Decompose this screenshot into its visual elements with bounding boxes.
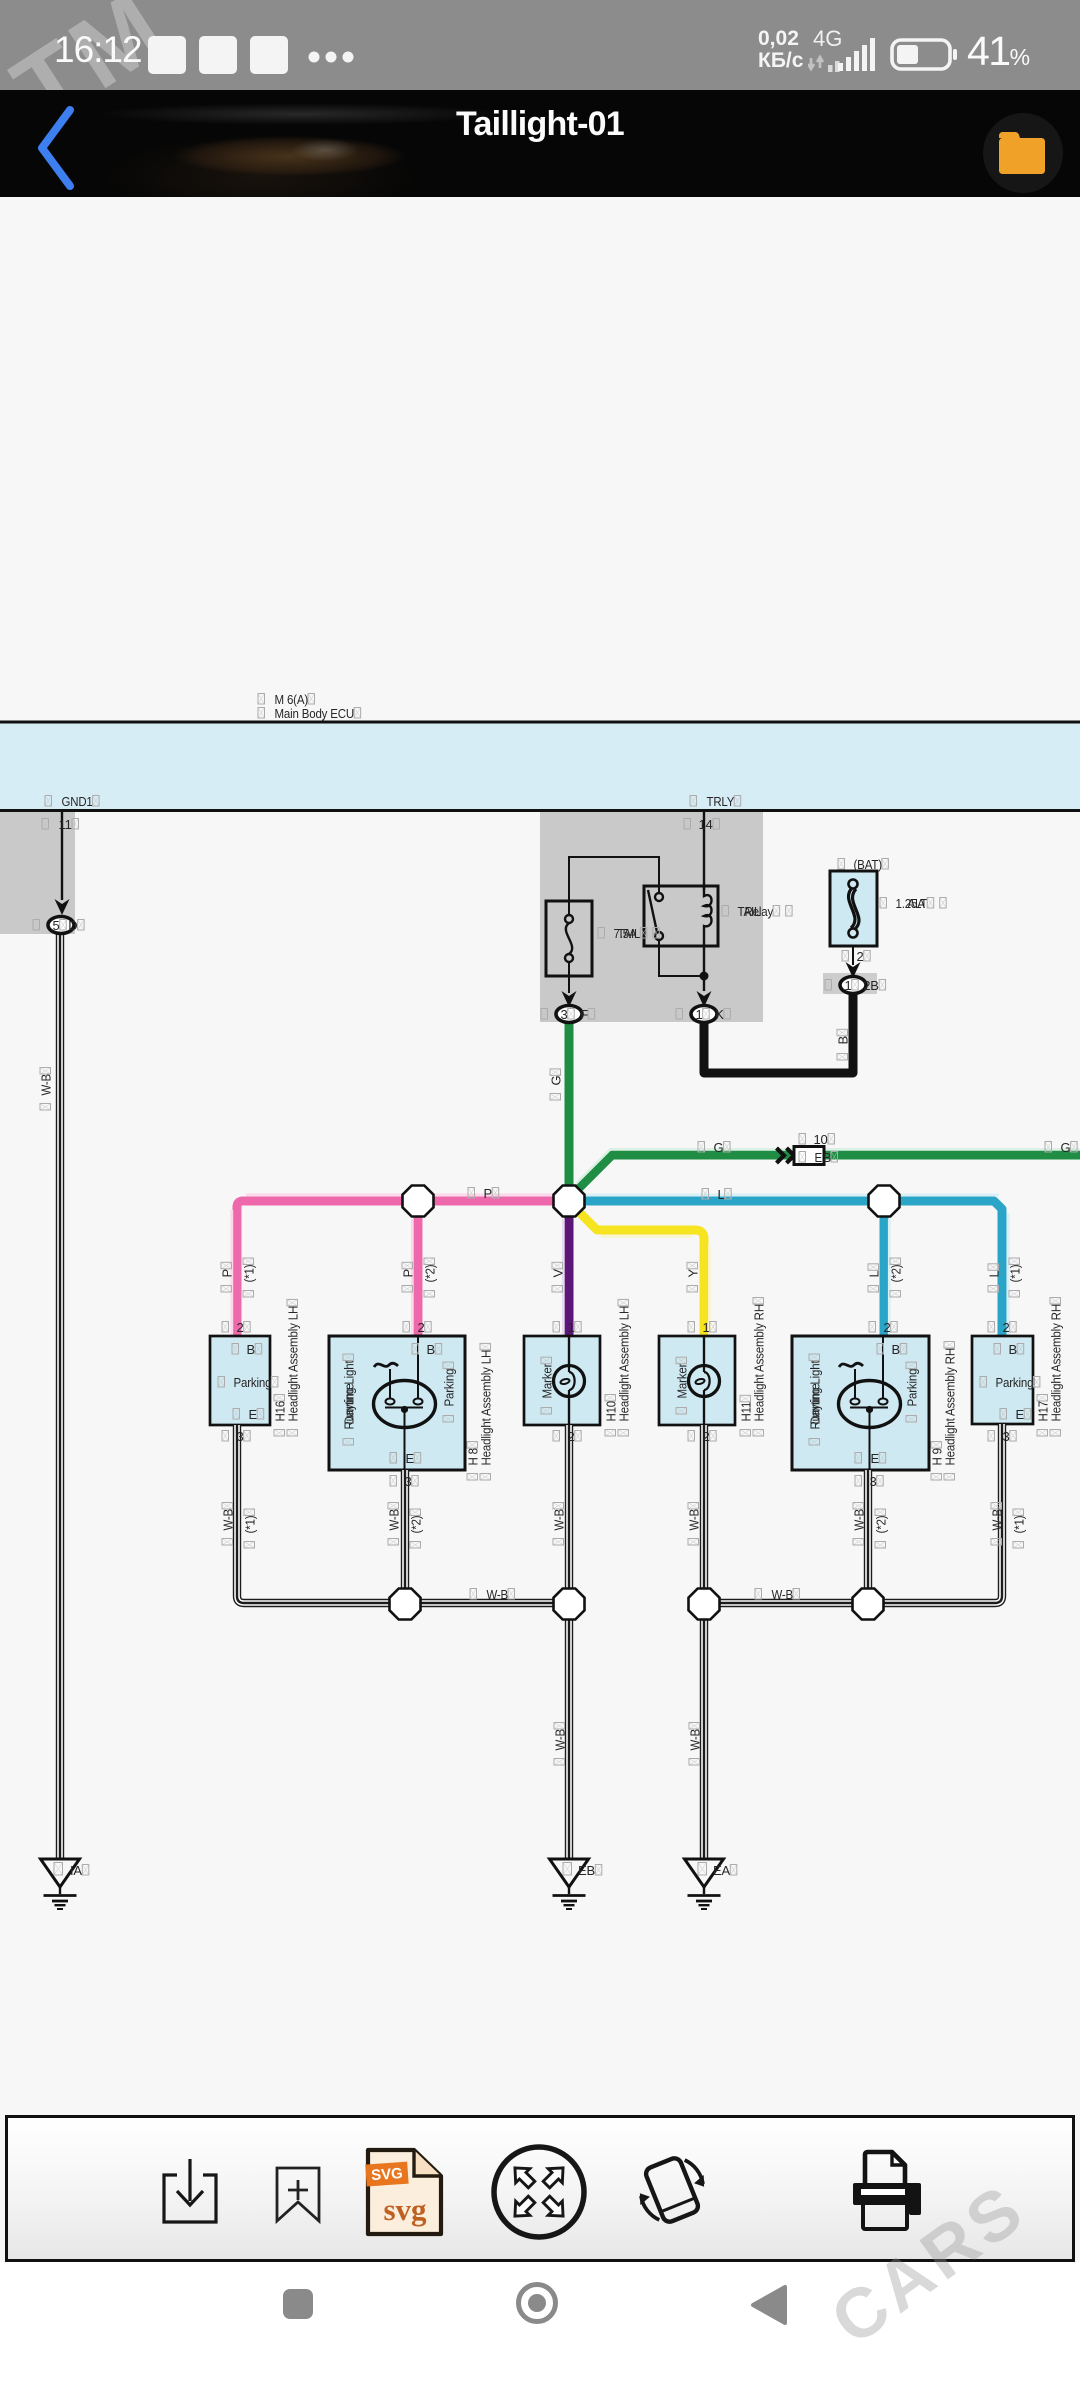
svg-text:W-B: W-B	[221, 1509, 236, 1531]
svg-text:M 6(A): M 6(A)	[275, 692, 309, 707]
label B parking LH	[232, 1344, 239, 1355]
label Headlight Assembly LH parking	[286, 1299, 301, 1436]
label P wire horizontal	[468, 1188, 475, 1199]
svg-text:2: 2	[1003, 1320, 1010, 1335]
running light RH bulb	[839, 1363, 863, 1367]
toolbar	[5, 2115, 1075, 2262]
label Marker LH	[540, 1357, 555, 1414]
svg-text:W-B: W-B	[387, 1509, 402, 1531]
label W-B parking LH	[221, 1503, 236, 1546]
battery	[890, 38, 960, 72]
svg-text:Headlight Assembly LH: Headlight Assembly LH	[479, 1350, 494, 1466]
junction octagon ground RH2	[853, 1589, 884, 1620]
label (*2) WB LH	[409, 1509, 424, 1548]
svg-text:E: E	[406, 1451, 415, 1466]
wire W-B to ground IA	[56, 933, 64, 1859]
svg-text:B: B	[892, 1342, 900, 1357]
svg-text:1: 1	[845, 978, 852, 993]
label P wire 2	[401, 1262, 416, 1292]
connector shield 2B (gray)	[823, 973, 877, 994]
svg-text:Daytime: Daytime	[342, 1384, 357, 1425]
pin 3 parking RH	[988, 1431, 995, 1442]
label Headlight Assembly RH marker	[752, 1298, 767, 1437]
4G and signal	[813, 26, 842, 52]
svg-text:Marker: Marker	[540, 1363, 555, 1399]
wire G green from connector F to junction	[565, 1021, 574, 1201]
toolbar icon print	[845, 2145, 930, 2235]
label Main Body ECU	[258, 708, 265, 719]
wire fuse to pin 3	[568, 962, 570, 993]
pin 2 parking LH	[222, 1322, 229, 1333]
wire W-B parking RH to junction	[883, 1424, 1002, 1603]
wire P pink branch to running light LH	[414, 1201, 423, 1336]
svg-text:3: 3	[237, 1429, 244, 1444]
svg-text:Parking: Parking	[442, 1369, 457, 1407]
label B running RH	[877, 1344, 884, 1355]
toolbar icon rotate-device	[625, 2145, 720, 2235]
toolbar icon download	[155, 2145, 230, 2230]
toolbar icon bookmark-add	[270, 2160, 325, 2230]
label (*2) RH	[889, 1258, 904, 1297]
svg-text:Parking: Parking	[905, 1369, 920, 1407]
svg-text:10: 10	[814, 1132, 828, 1147]
marker LH bulb	[568, 1336, 570, 1425]
label H 8	[466, 1442, 481, 1480]
svg-text:(*1): (*1)	[1008, 1265, 1023, 1283]
svg-text:Parking: Parking	[234, 1375, 272, 1390]
ground EB	[550, 1859, 589, 1909]
nav bar	[0, 2262, 1080, 2400]
status bar	[0, 0, 1080, 90]
label W-B horizontal LH	[470, 1589, 477, 1600]
junction octagon main	[0, 0, 1, 1]
ground EA	[685, 1859, 724, 1909]
wire GND1 pin 11 to connector D	[61, 812, 63, 900]
ECU band (Main Body ECU)	[0, 723, 1080, 809]
svg-text:Marker: Marker	[675, 1363, 690, 1399]
svg-text:L: L	[987, 1270, 1002, 1277]
junction octagon main green	[554, 1186, 585, 1217]
parking RH box	[972, 1336, 1033, 1424]
inline connector EB 10 box	[794, 1147, 824, 1165]
pin 1 / K connector	[676, 1009, 683, 1020]
label W-B parking RH	[990, 1503, 1005, 1546]
watermark CARS bottom-right	[790, 2120, 1080, 2400]
nav circle	[515, 2281, 559, 2325]
svg-text:EA: EA	[713, 1863, 730, 1878]
svg-text:G: G	[714, 1140, 724, 1155]
running light RH box	[792, 1336, 929, 1470]
svg-text:3: 3	[870, 1474, 877, 1489]
label (*1) RH	[1008, 1258, 1023, 1297]
wire L blue to parking RH	[584, 1201, 1002, 1336]
wire W-B junction to ground EA	[700, 1618, 708, 1859]
svg-text:Headlight Assembly LH: Headlight Assembly LH	[617, 1306, 632, 1422]
label Headlight Assembly RH running	[943, 1342, 958, 1481]
label W-B to EB	[553, 1723, 568, 1766]
svg-text:Headlight Assembly RH: Headlight Assembly RH	[752, 1304, 767, 1422]
label E running RH	[855, 1453, 862, 1464]
svg-text:W-B: W-B	[772, 1587, 794, 1602]
svg-text:P: P	[401, 1269, 416, 1277]
svg-text:2: 2	[884, 1320, 891, 1335]
label L wire horizontal	[702, 1189, 709, 1200]
svg-text:(*2): (*2)	[889, 1265, 904, 1283]
junction octagon ground LH2	[554, 1589, 585, 1620]
connector K oval pin 1	[691, 1006, 717, 1023]
label G wire vertical	[549, 1069, 564, 1100]
wire W-B marker RH down	[700, 1425, 708, 1590]
parking LH box	[210, 1336, 270, 1425]
label W-B running RH	[852, 1503, 867, 1546]
nav square	[283, 2289, 313, 2319]
svg-text:B: B	[247, 1342, 255, 1357]
wire Y yellow to marker RH	[577, 1210, 704, 1336]
label Parking RH	[980, 1377, 987, 1388]
wire TRLY pin 14 to relay coil	[703, 812, 705, 890]
label L wire 1	[987, 1264, 1002, 1292]
label W-B to EA	[688, 1723, 703, 1766]
svg-text:K: K	[715, 1007, 724, 1022]
svg-text:W-B: W-B	[990, 1509, 1005, 1531]
svg-text:2: 2	[237, 1320, 244, 1335]
label G wire left	[698, 1142, 705, 1153]
toolbar icon expand	[489, 2142, 589, 2242]
label TRLY	[690, 796, 697, 807]
app title	[0, 105, 1080, 144]
svg-text:Headlight Assembly RH: Headlight Assembly RH	[1049, 1304, 1064, 1422]
svg-text:V: V	[551, 1269, 566, 1278]
label M 6(A)	[258, 694, 265, 705]
svg-text:P: P	[220, 1269, 235, 1277]
pin 2 running LH	[403, 1322, 410, 1333]
svg-text:1: 1	[696, 1007, 703, 1022]
pin 2 parking RH	[988, 1322, 995, 1333]
svg-text:TRLY: TRLY	[707, 794, 735, 809]
label H16	[273, 1395, 288, 1437]
label Parking in running RH	[905, 1362, 920, 1422]
label (*1) LH	[242, 1258, 257, 1297]
svg-text:1: 1	[703, 1320, 710, 1335]
junction octagon ground RH1	[689, 1589, 720, 1620]
wire W-B parking LH to junction	[237, 1425, 390, 1603]
wire P pink to parking LH	[237, 1201, 554, 1336]
wire W-B running LH to junction	[401, 1470, 409, 1590]
svg-text:L: L	[867, 1270, 882, 1277]
svg-text:(*1): (*1)	[1012, 1516, 1027, 1534]
label E parking RH	[1000, 1409, 1007, 1420]
label Running Light RH	[808, 1354, 823, 1445]
notification icons	[148, 36, 186, 74]
wire V violet to marker LH	[565, 1201, 574, 1336]
svg-text:B: B	[427, 1342, 435, 1357]
label Headlight Assembly LH running	[479, 1343, 494, 1480]
pin 1 marker LH	[553, 1322, 560, 1333]
label Running Light LH	[342, 1354, 357, 1445]
dots	[308, 50, 368, 62]
svg-text:(BAT): (BAT)	[854, 857, 882, 872]
label (*1) WB RH	[1012, 1509, 1027, 1548]
circuit breaker 1.25A ALT box	[830, 871, 877, 946]
svg-text:E: E	[871, 1451, 880, 1466]
wire W-B running RH to junction	[864, 1470, 872, 1590]
pin 2 marker LH	[553, 1431, 560, 1442]
pin 2 running RH	[869, 1322, 876, 1333]
connector 2B oval pin 1	[840, 977, 866, 994]
connector D oval pin 5	[48, 917, 74, 934]
svg-text:2B: 2B	[863, 978, 879, 993]
junction octagon pink	[403, 1186, 434, 1217]
svg-text:IA: IA	[70, 1863, 82, 1878]
arrow into connector F	[562, 991, 577, 1007]
svg-text:Relay: Relay	[745, 904, 774, 919]
pin 2 marker RH	[688, 1431, 695, 1442]
label H11	[739, 1395, 754, 1436]
relay TAIL box	[644, 886, 718, 946]
svg-text:P: P	[484, 1186, 492, 1201]
svg-text:B: B	[824, 1150, 832, 1165]
pin 3 running LH	[390, 1476, 397, 1487]
svg-text:2: 2	[568, 1429, 575, 1444]
label Parking in running LH	[442, 1362, 457, 1422]
wire L blue branch to running light RH	[880, 1201, 889, 1336]
label E running LH	[390, 1453, 397, 1464]
svg-text:SVG: SVG	[371, 2165, 404, 2184]
green branch to EB inline connector	[578, 1155, 1080, 1189]
svg-text:Headlight Assembly RH: Headlight Assembly RH	[943, 1348, 958, 1466]
svg-text:W-B: W-B	[487, 1587, 509, 1602]
wire W-B junction to ground EB	[565, 1618, 573, 1859]
svg-text:W-B: W-B	[688, 1729, 703, 1751]
label V wire	[551, 1262, 566, 1292]
svg-text:Daytime: Daytime	[808, 1384, 823, 1425]
label H10	[604, 1395, 619, 1437]
svg-text:B: B	[1009, 1342, 1017, 1357]
watermark TM top-left	[0, 0, 260, 130]
svg-text:(*2): (*2)	[423, 1265, 438, 1283]
label B wire	[836, 1029, 851, 1060]
label B running LH	[412, 1344, 419, 1355]
svg-text:2: 2	[703, 1429, 710, 1444]
svg-text:3: 3	[1003, 1429, 1010, 1444]
connector shield relay block (gray)	[540, 812, 763, 1022]
svg-text:E: E	[249, 1407, 258, 1422]
arrow into connector D	[55, 899, 70, 915]
svg-text:W-B: W-B	[552, 1509, 567, 1531]
pin 3 / F connector	[541, 1009, 548, 1020]
wire fuse to relay contact	[569, 857, 659, 915]
svg-text:(*2): (*2)	[409, 1516, 424, 1534]
folder button	[983, 113, 1063, 193]
wire W-B junction EA to junction RH	[719, 1599, 853, 1607]
nav back triangle	[748, 2283, 792, 2327]
svg-text:svg: svg	[383, 2192, 427, 2227]
wire B thick black K to 2B	[704, 994, 853, 1073]
marker RH bulb	[703, 1336, 705, 1425]
svg-text:2: 2	[857, 949, 864, 964]
running light LH bulb	[374, 1363, 398, 1367]
label H17	[1036, 1395, 1051, 1437]
pin 3 running RH	[855, 1476, 862, 1487]
svg-text:EB: EB	[578, 1863, 595, 1878]
label L wire 2	[867, 1264, 882, 1292]
svg-text:11: 11	[59, 817, 72, 832]
label 10 inline connector	[799, 1134, 806, 1145]
fuse element symbol	[565, 915, 573, 923]
svg-text:E: E	[1016, 1407, 1025, 1422]
svg-text:3: 3	[561, 1007, 568, 1022]
svg-text:(*1): (*1)	[242, 1265, 257, 1283]
data rate	[758, 28, 803, 72]
svg-text:GND1: GND1	[62, 794, 93, 809]
pin 1 marker RH	[688, 1322, 695, 1333]
pin 14	[684, 819, 691, 830]
svg-text:1: 1	[568, 1320, 575, 1335]
wire W-B junction to junction mid-left	[420, 1599, 555, 1607]
connector shield M6 left (gray)	[0, 812, 75, 934]
svg-text:Main Body ECU: Main Body ECU	[275, 706, 355, 721]
label E parking LH	[233, 1409, 240, 1420]
junction dot relay output	[700, 972, 709, 981]
battery percent	[967, 28, 1030, 75]
svg-text:Headlight Assembly LH: Headlight Assembly LH	[286, 1306, 301, 1422]
toolbar icon svg-file	[362, 2145, 447, 2240]
svg-text:5: 5	[53, 918, 60, 933]
pin 1 / 2B connector	[825, 980, 832, 991]
wire relay contact to pin 1	[659, 940, 700, 976]
svg-text:F: F	[580, 1007, 588, 1022]
svg-text:W-B: W-B	[852, 1509, 867, 1531]
marker RH box	[659, 1336, 735, 1425]
label (*2) WB RH	[874, 1509, 889, 1548]
svg-text:E: E	[815, 1150, 823, 1165]
relay contact	[655, 893, 663, 901]
svg-text:2: 2	[418, 1320, 425, 1335]
arrow into connector 2B	[846, 962, 861, 978]
pin 11	[42, 819, 49, 830]
svg-text:W-B: W-B	[687, 1509, 702, 1531]
label B parking RH	[994, 1344, 1001, 1355]
svg-text:B: B	[836, 1036, 851, 1044]
circuit breaker element	[849, 880, 858, 889]
ground IA	[41, 1859, 80, 1909]
label Headlight Assembly LH marker	[617, 1299, 632, 1436]
label TAIL Relay	[722, 906, 729, 917]
marker LH box	[524, 1336, 600, 1425]
svg-text:TAIL: TAIL	[618, 926, 641, 941]
svg-text:(*2): (*2)	[874, 1516, 889, 1534]
svg-text:Y: Y	[686, 1269, 701, 1278]
label P wire 1	[220, 1262, 235, 1292]
running light LH box	[329, 1336, 465, 1470]
junction octagon blue	[869, 1186, 900, 1217]
junction octagon ground LH1	[390, 1589, 421, 1620]
label Marker RH	[675, 1357, 690, 1414]
pin 2 breaker	[842, 951, 849, 962]
label 7.5A TAIL fuse	[598, 928, 605, 939]
label Parking LH	[218, 1377, 225, 1388]
svg-text:G: G	[549, 1076, 564, 1086]
svg-text:L: L	[718, 1187, 725, 1202]
relay coil	[704, 886, 712, 991]
app bar	[0, 90, 1080, 197]
back chevron	[26, 100, 86, 195]
svg-text:3: 3	[405, 1474, 412, 1489]
label Y wire	[686, 1262, 701, 1292]
label W-B horizontal RH	[755, 1589, 762, 1600]
label (*2) LH	[423, 1258, 438, 1297]
svg-text:W-B: W-B	[553, 1729, 568, 1751]
label H 9	[930, 1442, 945, 1480]
connector F oval pin 3	[556, 1006, 582, 1023]
label GND1	[45, 796, 52, 807]
label W-B IA	[39, 1068, 54, 1111]
label G wire right	[1045, 1142, 1052, 1153]
svg-text:G: G	[1061, 1140, 1071, 1155]
label (*1) WB LH	[243, 1509, 258, 1548]
label W-B marker LH	[552, 1503, 567, 1546]
label W-B running LH	[387, 1503, 402, 1546]
svg-text:14: 14	[699, 817, 713, 832]
label W-B marker RH	[687, 1503, 702, 1546]
wire breaker pin 2 down	[852, 946, 854, 965]
pin 5 / connector D	[33, 920, 40, 931]
svg-text:ALT: ALT	[908, 896, 928, 911]
fuse 7.5A TAIL box	[546, 901, 592, 976]
svg-text:(*1): (*1)	[243, 1516, 258, 1534]
label Headlight Assembly RH parking	[1049, 1298, 1064, 1437]
wire W-B marker LH down	[565, 1425, 573, 1590]
svg-text:Parking: Parking	[996, 1375, 1034, 1390]
pin 3 parking LH	[222, 1431, 229, 1442]
svg-text:D: D	[68, 918, 77, 933]
label (BAT)	[838, 859, 845, 870]
label 1.25A ALT	[880, 898, 887, 909]
arrow into connector K	[697, 991, 712, 1007]
svg-text:W-B: W-B	[39, 1074, 54, 1096]
label EB inline connector	[799, 1152, 806, 1163]
inline connector EB 10 chevrons	[777, 1148, 795, 1163]
status clock	[54, 29, 142, 71]
